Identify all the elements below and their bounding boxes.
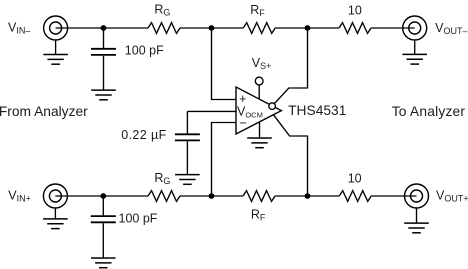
- label RF (bottom): [251, 207, 266, 222]
- label RF (top): [250, 3, 265, 18]
- label VIN-: [8, 20, 30, 35]
- wire op-amp OUT- to top feedback node: [274, 28, 307, 104]
- ground (under J4): [404, 208, 429, 233]
- svg-text:100 pF: 100 pF: [125, 44, 164, 58]
- svg-text:RG: RG: [154, 171, 170, 186]
- label 0.22 uF (C2): [121, 128, 166, 142]
- op-amp - input marking: [240, 116, 247, 130]
- label VOUT+: [436, 189, 468, 204]
- svg-text:VIN–: VIN–: [8, 20, 30, 35]
- ground (under J3): [43, 208, 68, 229]
- node top output junction: [305, 25, 311, 31]
- label VOUT-: [435, 21, 467, 36]
- label 100 pF (C3): [119, 211, 158, 225]
- svg-text:RF: RF: [251, 207, 266, 222]
- node junction bottom-left (cap tap): [100, 193, 106, 199]
- label 10 (bottom): [348, 172, 362, 186]
- label VS+: [252, 56, 272, 71]
- wire top rail: R10 to J2: [371, 27, 415, 29]
- svg-text:10: 10: [348, 172, 362, 186]
- coax connector J2 VOUT-: [403, 16, 427, 40]
- svg-text:THS4531: THS4531: [288, 103, 346, 118]
- VS+ supply terminal: [255, 77, 263, 99]
- svg-text:To Analyzer: To Analyzer: [392, 104, 466, 119]
- coax connector J1 VIN-: [44, 16, 68, 40]
- ground (under C3): [91, 258, 116, 268]
- label RG (top): [154, 3, 170, 18]
- label 10 (top): [348, 4, 362, 18]
- svg-text:RG: RG: [154, 3, 170, 18]
- label 100 pF (C1): [125, 44, 164, 58]
- label THS4531: [288, 103, 346, 118]
- wire bottom rail: RG to RF: [180, 195, 243, 197]
- wire VOCM input: [187, 110, 236, 112]
- label RG (bottom): [154, 171, 170, 186]
- ground (under J1): [43, 40, 68, 64]
- resistor RG (bottom): [148, 191, 180, 202]
- node junction top-left (cap tap): [101, 25, 107, 31]
- ground (under C2): [175, 175, 200, 185]
- svg-text:From Analyzer: From Analyzer: [0, 104, 88, 119]
- resistor RG (top): [148, 23, 180, 34]
- wire bottom rail: R10 to J4: [371, 195, 416, 197]
- svg-text:VOUT–: VOUT–: [435, 21, 467, 36]
- wire bottom rail: RF to R10: [275, 195, 339, 197]
- svg-text:10: 10: [348, 4, 362, 18]
- resistor RF (top): [243, 23, 275, 34]
- resistor 10 ohm (top): [339, 23, 371, 34]
- resistor RF (bottom): [243, 191, 275, 202]
- capacitor C1 100 pF: [91, 28, 116, 90]
- coax connector J4 VOUT+: [405, 184, 429, 208]
- svg-text:VIN+: VIN+: [8, 189, 31, 204]
- label To Analyzer: [392, 104, 466, 119]
- node bottom summing junction: [209, 193, 215, 199]
- node top summing junction: [209, 25, 215, 31]
- ground (op-amp VS-): [247, 122, 272, 148]
- ground (under J2): [402, 40, 427, 64]
- svg-text:RF: RF: [250, 3, 265, 18]
- svg-text:VS+: VS+: [252, 56, 272, 71]
- coax connector J3 VIN+: [43, 184, 67, 208]
- wire to op-amp + input: [212, 28, 237, 100]
- resistor 10 ohm (bottom): [339, 191, 371, 202]
- node bottom output junction: [305, 193, 311, 199]
- wire top rail: RF to R10: [275, 27, 339, 29]
- label VIN+: [8, 189, 31, 204]
- svg-text:100 pF: 100 pF: [119, 211, 158, 225]
- wire top rail: RG to RF: [180, 27, 243, 29]
- capacitor C2 0.22 uF: [175, 111, 200, 174]
- wire top rail: J1 to RG: [56, 27, 148, 29]
- op-amp + input marking: [239, 92, 246, 106]
- op-amp inverting output bubble: [269, 103, 276, 110]
- capacitor C3 100 pF: [91, 196, 116, 258]
- ground (under C1): [91, 90, 116, 100]
- op-amp U1 THS4531 triangle: [236, 87, 281, 134]
- svg-text:VOUT+: VOUT+: [436, 189, 468, 204]
- wire bottom rail: J3 to RG: [55, 195, 148, 197]
- label VOCM (inside op-amp): [237, 105, 263, 120]
- wire op-amp OUT+ to bottom feedback node: [273, 115, 307, 196]
- wire to op-amp - input: [212, 123, 237, 197]
- label From Analyzer: [0, 104, 88, 119]
- svg-text:0.22 µF: 0.22 µF: [121, 128, 166, 142]
